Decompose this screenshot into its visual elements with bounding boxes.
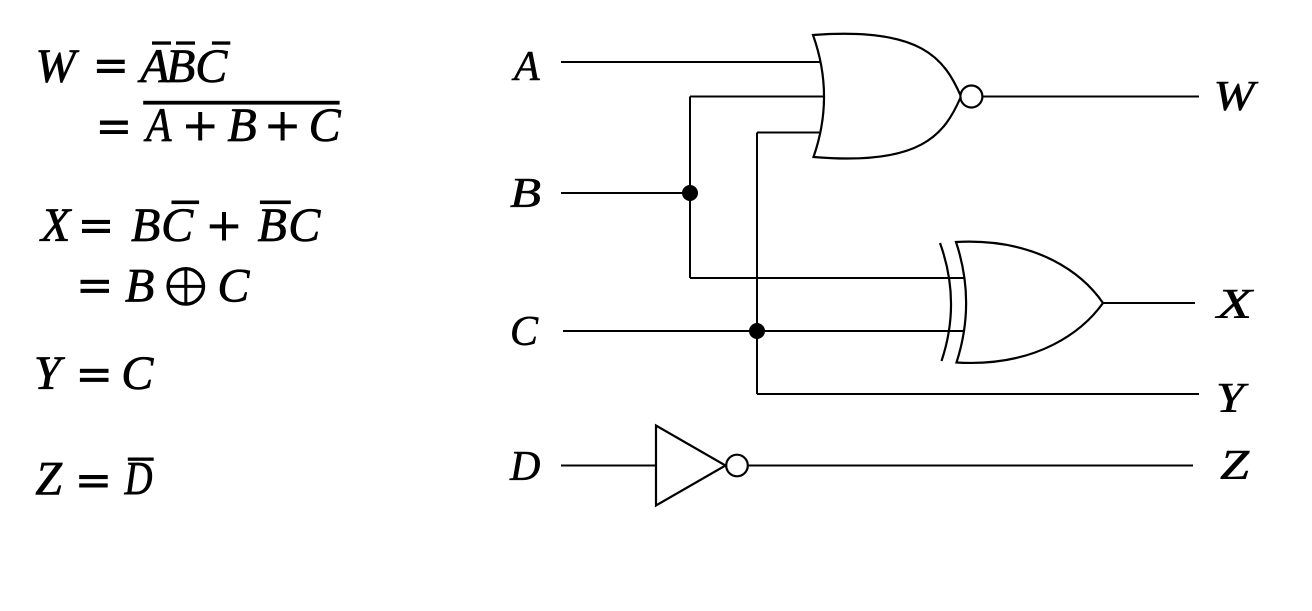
svg-text:B: B bbox=[227, 99, 256, 152]
junction node: B branch dot bbox=[682, 185, 698, 201]
equation line 1: W = A-bar B-bar C-bar bbox=[36, 40, 231, 93]
svg-text:B: B bbox=[258, 199, 287, 252]
NOR gate U1 output bubble bbox=[960, 86, 982, 108]
xor symbol circle-plus bbox=[168, 269, 203, 304]
equation line 4: = B xor C bbox=[81, 260, 251, 313]
wire: inverter output to Z bbox=[748, 465, 1193, 467]
junction node: C branch dot bbox=[749, 323, 765, 339]
svg-text:Z: Z bbox=[35, 453, 63, 506]
svg-text:A: A bbox=[511, 44, 540, 90]
wire: C vertical from NOR input 3 down through junction to Y branch bbox=[756, 133, 758, 395]
svg-text:C: C bbox=[288, 199, 321, 252]
svg-text:B: B bbox=[131, 199, 160, 252]
XOR gate U2 body bbox=[956, 242, 1103, 363]
svg-text:B: B bbox=[125, 260, 154, 313]
wire: input A to NOR gate input 1 bbox=[561, 61, 830, 63]
wire: XOR output to X bbox=[1102, 302, 1195, 304]
wire: NOR gate input 2 horizontal bbox=[690, 96, 830, 98]
wire: input C to XOR input 2 bbox=[563, 330, 972, 332]
svg-text:C: C bbox=[217, 260, 250, 313]
svg-text:A: A bbox=[143, 99, 172, 152]
wire: NOR gate input 3 horizontal bbox=[757, 132, 830, 134]
wire: input B horizontal to junction bbox=[561, 192, 690, 194]
equation line 5: Y = C bbox=[34, 347, 154, 400]
equation line 6: Z = D-bar bbox=[35, 453, 154, 506]
svg-text:W: W bbox=[36, 40, 80, 93]
NOR gate U1 body bbox=[813, 34, 961, 159]
XOR gate U2 extra input arc bbox=[940, 243, 951, 361]
wire: Y output from C branch bbox=[757, 393, 1199, 395]
wire: NOR output to W bbox=[982, 96, 1199, 98]
svg-text:C: C bbox=[309, 99, 342, 152]
inverter U3 triangle bbox=[656, 426, 726, 506]
wire: B vertical from NOR input 2 down through junction to XOR branch bbox=[689, 97, 691, 279]
svg-text:W: W bbox=[1214, 74, 1260, 120]
svg-text:C: C bbox=[510, 309, 539, 355]
svg-text:B: B bbox=[166, 40, 195, 93]
svg-text:Y: Y bbox=[34, 347, 65, 400]
wire: B branch to XOR input 1 bbox=[690, 277, 972, 279]
inverter U3 output bubble bbox=[726, 455, 748, 477]
svg-text:D: D bbox=[509, 444, 540, 490]
equation line 3: X = B C-bar + B-bar C bbox=[39, 199, 321, 252]
svg-text:B: B bbox=[510, 171, 541, 217]
svg-text:X: X bbox=[39, 199, 72, 252]
svg-text:Z: Z bbox=[1220, 443, 1250, 489]
equation line 2: = overline(A + B + C) bbox=[100, 99, 342, 152]
svg-text:C: C bbox=[161, 199, 194, 252]
svg-text:C: C bbox=[195, 40, 228, 93]
svg-text:X: X bbox=[1214, 282, 1255, 328]
wire: input D to inverter bbox=[561, 465, 658, 467]
svg-text:C: C bbox=[121, 347, 154, 400]
